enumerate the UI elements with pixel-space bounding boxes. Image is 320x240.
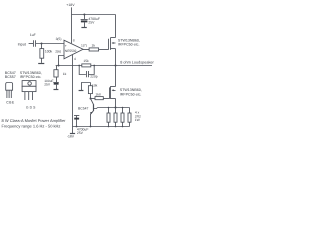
capacitor C5 thick plate <box>54 83 59 85</box>
wire Q3 base lead <box>94 108 98 109</box>
label loudspeaker <box>120 61 154 65</box>
label U1 minus input <box>64 54 65 58</box>
transistor Q1 upper MOSFET gate bar <box>108 39 110 50</box>
resistor R2 1k <box>89 48 99 51</box>
capacitor C1 lower lead <box>84 22 86 27</box>
label title line 1 <box>2 118 67 123</box>
junction input / R1 <box>41 43 43 45</box>
label U1 plus input <box>65 44 67 48</box>
capacitor C4 stem <box>76 116 78 119</box>
wire sense row <box>98 107 130 109</box>
transistor Q3 emitter <box>91 111 94 127</box>
label title line 2 <box>2 123 61 128</box>
svg-text:2(6): 2(6) <box>55 50 61 54</box>
wire +18V drop <box>71 7 73 14</box>
transistor Q3 emitter arrow <box>90 112 93 115</box>
junction 220p right stub <box>93 65 95 67</box>
svg-text:Frequency range 1.6 Hz - 50 kH: Frequency range 1.6 Hz - 50 kHz <box>2 123 61 128</box>
wire op-amp output <box>83 49 89 51</box>
capacitor C5 lower lead <box>56 85 58 90</box>
svg-text:-18V: -18V <box>67 134 75 138</box>
wire input <box>29 43 33 45</box>
junction 220p left stub <box>78 65 80 67</box>
svg-text:10k: 10k <box>92 84 98 88</box>
wire Q2 drain trunk <box>115 66 117 87</box>
wire R5 to Q2 gate <box>103 98 109 100</box>
capacitor C1 thick plate <box>81 20 88 22</box>
package TO-247 hole <box>28 82 32 86</box>
terminal -18V bar <box>70 133 75 135</box>
capacitor C4 lower lead <box>76 120 78 127</box>
label pin 8 <box>73 39 75 43</box>
wire -18V stub <box>72 127 74 134</box>
capacitor C1 thin plate <box>81 19 88 21</box>
svg-text:25V: 25V <box>77 131 84 135</box>
wire top rail <box>72 14 116 16</box>
transistor Q2 source stub <box>111 98 116 100</box>
wire speaker row <box>56 65 152 67</box>
svg-text:IRFPC50 etc.: IRFPC50 etc. <box>120 92 142 96</box>
wire pin 2 inverting input <box>59 56 65 66</box>
wire op-amp pin 8 supply <box>71 15 73 44</box>
label pin 1(7) <box>81 43 87 47</box>
svg-text:25V: 25V <box>44 82 51 86</box>
label R1 value <box>45 50 53 54</box>
svg-text:BC557: BC557 <box>5 75 16 79</box>
label -18V <box>67 134 75 138</box>
svg-text:Input: Input <box>18 43 26 47</box>
resistor R5 1k8 <box>95 97 103 100</box>
transistor Q2 lower MOSFET gate bar <box>109 87 111 98</box>
wire 220p right stub <box>88 66 94 75</box>
node Input label <box>18 43 26 47</box>
svg-text:BC547: BC547 <box>78 107 88 111</box>
ground under R1 <box>38 63 44 65</box>
label R3 value <box>83 59 89 63</box>
svg-text:IRFPC50 etc.: IRFPC50 etc. <box>118 43 140 47</box>
wire Q1 drain trunk <box>115 15 117 38</box>
junction speaker node <box>115 65 117 67</box>
transistor Q2 drain stub <box>111 86 116 88</box>
resistor R1 100k <box>41 44 43 49</box>
transistor Q1 body arrow <box>112 42 114 44</box>
label C3 value <box>90 75 98 79</box>
junction source row trunk <box>115 107 117 109</box>
label Q3 name <box>78 107 88 111</box>
svg-text:8: 8 <box>73 39 75 43</box>
junction R4 / R5 / collector <box>90 98 92 100</box>
transistor Q3 BC547 bar <box>93 104 95 111</box>
junction top rail / C1 <box>83 14 85 16</box>
legend BC547 BC557 <box>5 71 16 79</box>
capacitor C1 4700uF top lead <box>84 15 86 20</box>
junction node A <box>58 65 60 67</box>
capacitor C4 thick plate <box>74 118 79 120</box>
label G D S <box>26 105 37 109</box>
wire R2 to Q1 gate <box>99 49 109 51</box>
resistor R6 2R2 a <box>108 108 110 114</box>
svg-text:25V: 25V <box>88 21 95 25</box>
svg-text:1uF: 1uF <box>30 33 36 37</box>
transistor Q1 drain stub <box>111 37 116 39</box>
wire 220p left stub <box>79 66 86 75</box>
label Q1 types <box>118 38 140 46</box>
op-amp U1 NE5532 triangle <box>64 40 83 59</box>
ground bar for R4 <box>79 90 84 92</box>
junction emitter rail <box>90 126 92 128</box>
label C5 value <box>44 79 53 87</box>
svg-text:8 ohm Loudspeaker: 8 ohm Loudspeaker <box>120 61 154 65</box>
label CBE <box>6 101 15 105</box>
transistor Q2 channel bar <box>110 86 112 99</box>
transistor Q1 body stub <box>113 42 116 44</box>
ground under C5 <box>54 89 59 91</box>
svg-text:3(5): 3(5) <box>56 37 62 41</box>
wire -18V rail <box>73 126 130 128</box>
svg-text:+: + <box>65 44 67 48</box>
legend MOSFET types <box>20 71 42 79</box>
label pin 2(6) <box>55 50 61 54</box>
resistor R8 2R2 c <box>122 108 124 114</box>
wire ground to R4 arm <box>82 83 91 91</box>
svg-text:1k: 1k <box>63 72 67 76</box>
svg-text:1(7): 1(7) <box>81 43 87 47</box>
wire Q1 source trunk <box>115 49 117 66</box>
junction C4 rail <box>76 126 78 128</box>
label C1 value <box>88 17 100 25</box>
package TO-247 legs <box>25 92 33 100</box>
resistor R10 1k feedback shunt <box>56 66 58 70</box>
svg-text:220p: 220p <box>90 75 98 79</box>
svg-text:8 W Class-A Mosfet Power Ampli: 8 W Class-A Mosfet Power Amplifier <box>2 118 67 123</box>
svg-text:1k8: 1k8 <box>95 92 100 96</box>
svg-text:100k: 100k <box>45 50 53 54</box>
transistor Q2 body arrow <box>112 89 114 91</box>
node +18V label <box>66 3 75 7</box>
resistor R7 2R2 b <box>115 108 117 114</box>
package TO-247 tab <box>22 81 36 87</box>
label Q2 types <box>120 88 142 96</box>
svg-text:4: 4 <box>74 57 76 61</box>
transistor Q3 collector <box>91 99 94 105</box>
capacitor C5 100uF lead <box>56 77 58 82</box>
svg-text:1k: 1k <box>92 43 96 47</box>
wire pin 4 supply drop <box>72 55 74 127</box>
label C2 value uF <box>30 33 36 37</box>
capacitor C3 220p plates <box>87 71 89 77</box>
label U1 name <box>65 49 77 53</box>
capacitor C4 4700uF top plate <box>74 115 79 117</box>
label pin 4 <box>74 57 76 61</box>
transistor Q2 body stub <box>113 90 116 92</box>
svg-text:15k: 15k <box>83 59 89 63</box>
package TO-247 body <box>22 86 36 91</box>
svg-text:GDS: GDS <box>26 105 37 109</box>
label R5 value <box>95 92 100 96</box>
wire junction to R5 <box>91 98 95 100</box>
wire input to op-amp <box>36 43 64 45</box>
capacitor C5 thin plate <box>53 82 59 84</box>
capacitor C2 input plates <box>34 40 36 47</box>
transistor Q1 channel bar <box>110 38 112 50</box>
label bank value <box>135 111 141 123</box>
package TO-92 body <box>6 83 13 91</box>
label C4 value <box>77 128 89 136</box>
label pin 3(5) <box>56 37 62 41</box>
label R10 value <box>63 72 67 76</box>
resistor R4 10k <box>90 83 92 86</box>
svg-text:1W: 1W <box>135 118 141 122</box>
junction bank top dots <box>108 107 110 109</box>
label R2 value <box>92 43 96 47</box>
resistor R9 2R2 d <box>129 108 131 114</box>
label R4 value <box>92 84 98 88</box>
svg-text:-: - <box>64 54 65 58</box>
ground under C1 <box>81 27 86 29</box>
transistor Q1 source stub <box>111 48 116 50</box>
svg-text:CBE: CBE <box>6 101 15 105</box>
package TO-92 legs <box>7 90 11 98</box>
svg-text:+18V: +18V <box>66 3 75 7</box>
svg-text:IRFPC50 etc.: IRFPC50 etc. <box>20 75 42 79</box>
svg-text:NE5532: NE5532 <box>65 49 77 53</box>
junction bank bottom dots <box>108 126 110 128</box>
resistor R3 15k <box>82 64 91 67</box>
wire Q2 source trunk <box>115 99 117 108</box>
